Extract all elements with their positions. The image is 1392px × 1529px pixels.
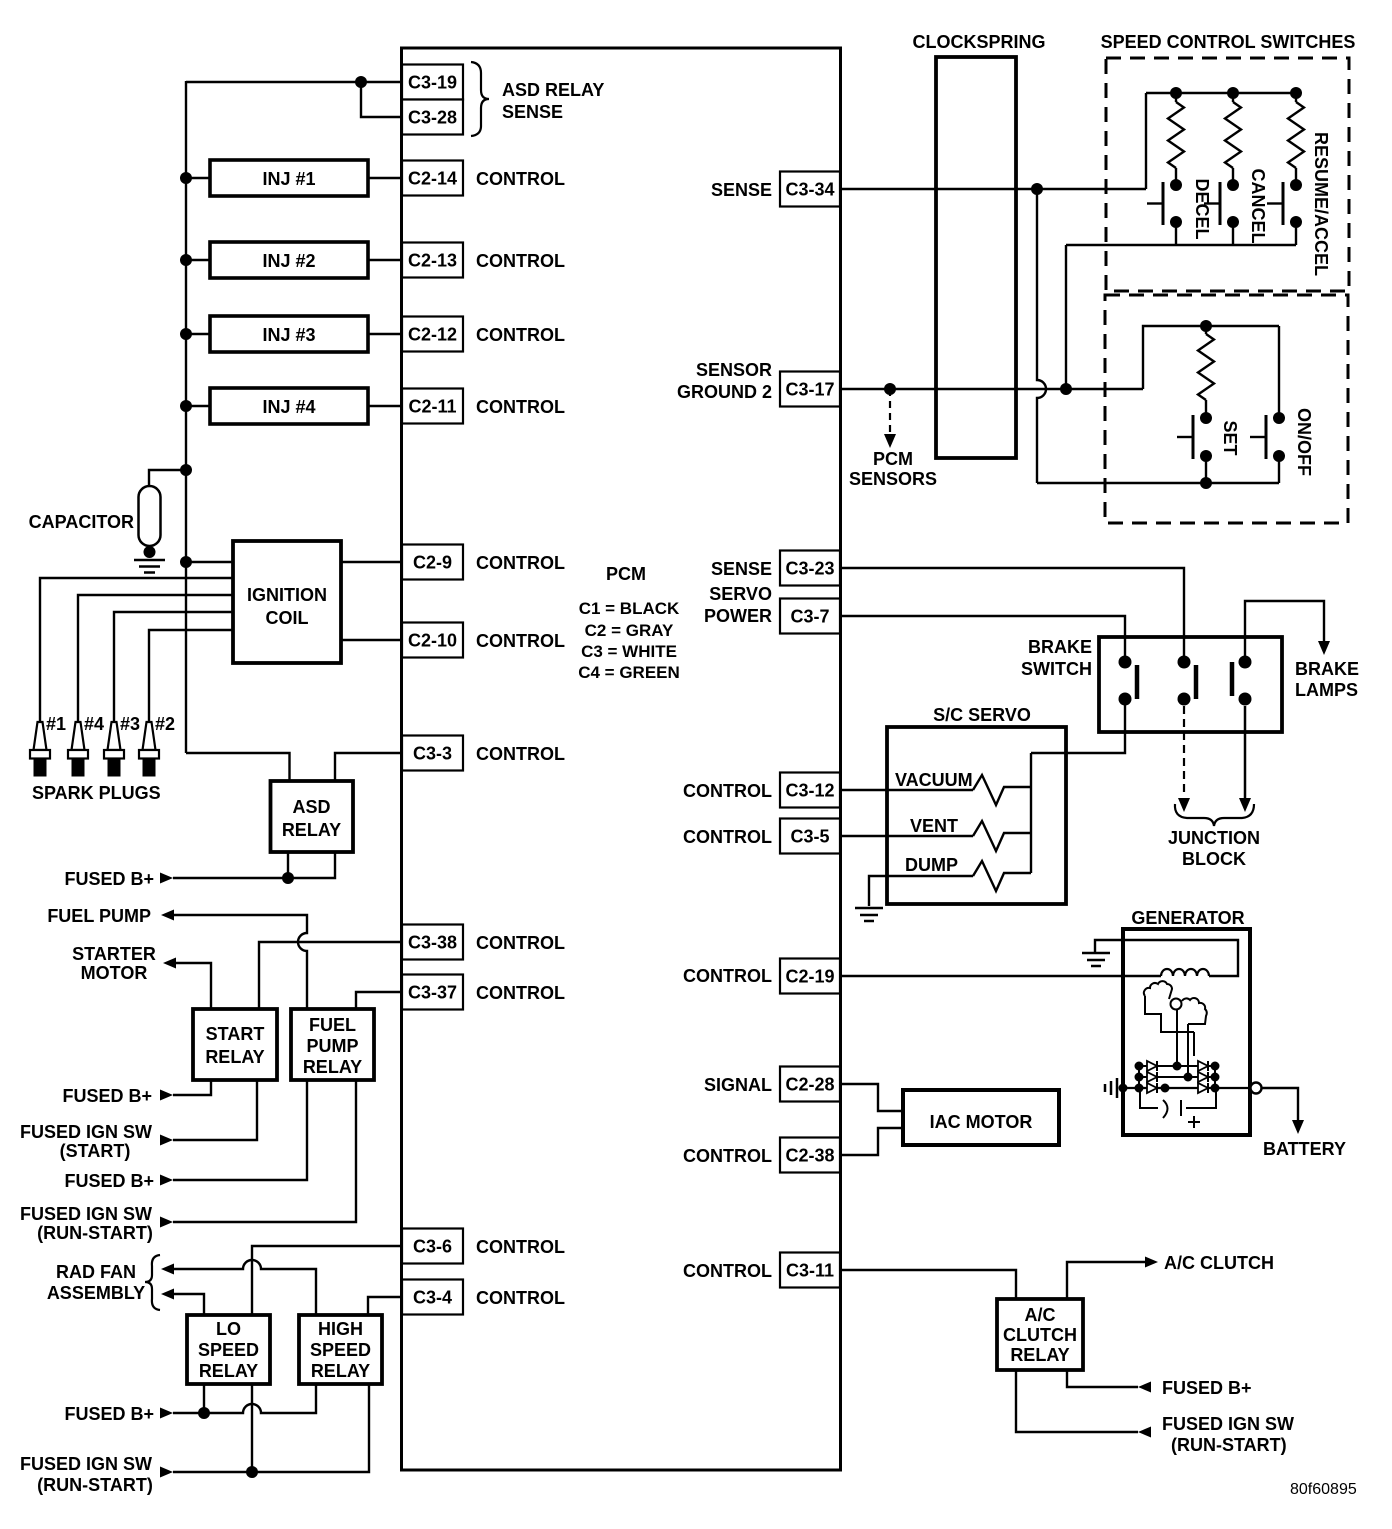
wire rad fan 2 to lo speed relay	[174, 1294, 204, 1315]
wire lower rail drop to C3-17	[1065, 245, 1067, 389]
PCM module box U1	[402, 48, 841, 1470]
svg-text:C2 = GRAY: C2 = GRAY	[585, 621, 674, 640]
svg-text:LO: LO	[216, 1319, 241, 1339]
wire coil to spark plug #4	[78, 595, 233, 722]
arrow contact3 junction block	[1239, 798, 1251, 812]
relay FUEL PUMP RELAY K3	[291, 1009, 374, 1080]
arrow battery	[1292, 1120, 1304, 1134]
svg-text:INJ #3: INJ #3	[262, 325, 315, 345]
wire riser to set/onoff top rail	[1143, 326, 1279, 389]
relay A/C CLUTCH RELAY K6	[997, 1299, 1083, 1370]
node set resistor top	[1200, 320, 1212, 332]
svg-text:CONTROL: CONTROL	[476, 744, 565, 764]
brace junction block	[1175, 804, 1254, 826]
connector pin C3-37	[402, 975, 463, 1010]
node top rail RESUME/ACCEL	[1290, 87, 1302, 99]
svg-text:VACUUM: VACUUM	[895, 770, 973, 790]
connector pin C2-10	[402, 623, 463, 658]
rectifier bridge rows	[1139, 1065, 1215, 1067]
diode D1	[1147, 1061, 1157, 1071]
arrow fused ign sw input 3	[1138, 1427, 1151, 1438]
svg-text:SPARK PLUGS: SPARK PLUGS	[32, 783, 161, 803]
node PCM sensors junction	[884, 383, 896, 395]
svg-text:C3-37: C3-37	[408, 983, 457, 1003]
svg-text:GENERATOR: GENERATOR	[1131, 908, 1244, 928]
svg-text:CONTROL: CONTROL	[683, 1146, 772, 1166]
wire contact1 bottom to servo	[1031, 699, 1125, 753]
node fused ign sw bottom junction	[246, 1466, 258, 1478]
wire INJ#1 to connector	[368, 177, 402, 179]
svg-text:CONTROL: CONTROL	[476, 553, 565, 573]
node junction on C3-19 wire	[355, 76, 367, 88]
injector INJ#3	[210, 316, 368, 352]
wire INJ#2 to connector	[368, 259, 402, 261]
wire coil to spark plug #3	[114, 612, 233, 722]
wire sense riser to top rail	[1145, 93, 1147, 189]
wire bus to INJ#2	[186, 259, 210, 261]
connector pin C2-38	[780, 1138, 840, 1173]
arrow brake lamps	[1318, 641, 1330, 655]
connector pin C3-11	[780, 1253, 840, 1288]
svg-text:BATTERY: BATTERY	[1263, 1139, 1346, 1159]
svg-text:ASD: ASD	[292, 797, 330, 817]
svg-text:MOTOR: MOTOR	[81, 963, 148, 983]
svg-text:CONTROL: CONTROL	[476, 397, 565, 417]
svg-text:IGNITION: IGNITION	[247, 585, 327, 605]
svg-text:GROUND 2: GROUND 2	[677, 382, 772, 402]
ground below capacitor	[134, 559, 165, 562]
svg-text:CONTROL: CONTROL	[476, 1237, 565, 1257]
servo box	[887, 727, 1066, 904]
wire ON/OFF to bottom rail	[1278, 456, 1280, 483]
clockspring box	[936, 57, 1016, 458]
svg-text:CONTROL: CONTROL	[683, 827, 772, 847]
wire coil to C2-9	[341, 561, 402, 563]
svg-text:SERVO: SERVO	[709, 584, 772, 604]
node top rail DECEL	[1170, 87, 1182, 99]
svg-text:C2-28: C2-28	[785, 1075, 834, 1095]
svg-text:FUSED B+: FUSED B+	[64, 1171, 154, 1191]
svg-text:#4: #4	[84, 714, 104, 734]
svg-text:PUMP: PUMP	[306, 1036, 358, 1056]
svg-text:(START): (START)	[60, 1141, 131, 1161]
svg-text:CAPACITOR: CAPACITOR	[29, 512, 134, 532]
spark plug #3	[108, 722, 121, 750]
svg-text:S/C SERVO: S/C SERVO	[933, 705, 1031, 725]
svg-text:CLOCKSPRING: CLOCKSPRING	[912, 32, 1045, 52]
arrow rad fan output 1	[161, 1264, 174, 1275]
svg-text:FUSED IGN SW: FUSED IGN SW	[20, 1122, 152, 1142]
svg-text:SPEED: SPEED	[310, 1340, 371, 1360]
svg-text:SENSE: SENSE	[711, 559, 772, 579]
svg-text:RELAY: RELAY	[205, 1047, 264, 1067]
wire bus to INJ#1	[186, 177, 210, 179]
arrow fused ign sw run-start input 2	[160, 1467, 173, 1478]
svg-text:C3-38: C3-38	[408, 933, 457, 953]
svg-text:RELAY: RELAY	[1010, 1345, 1069, 1365]
node bus junction capacitor	[180, 464, 192, 476]
svg-text:80f60895: 80f60895	[1290, 1481, 1357, 1498]
svg-text:RESUME/ACCEL: RESUME/ACCEL	[1311, 132, 1331, 276]
svg-text:C3-12: C3-12	[785, 781, 834, 801]
svg-text:A/C: A/C	[1025, 1305, 1056, 1325]
spark plug #2	[143, 722, 156, 750]
svg-text:STARTER: STARTER	[72, 944, 156, 964]
resistor DUMP solenoid	[973, 861, 1031, 891]
connector pin C3-23	[780, 551, 840, 586]
svg-text:C3-11: C3-11	[786, 1261, 834, 1281]
wire junction to C3-28	[361, 82, 402, 117]
svg-text:C3-3: C3-3	[413, 744, 452, 764]
svg-text:COIL: COIL	[266, 608, 309, 628]
relay HIGH SPEED RELAY K5	[299, 1315, 382, 1384]
ground generator case	[1116, 1078, 1119, 1098]
wire INJ#4 to connector	[368, 405, 402, 407]
svg-text:A/C CLUTCH: A/C CLUTCH	[1164, 1253, 1274, 1273]
wire coil to C2-10	[341, 639, 402, 641]
wire start relay to fused B+	[173, 1080, 211, 1095]
wire start relay to fused ign sw start	[173, 1080, 257, 1140]
switch SET	[1200, 412, 1212, 424]
node bus junction INJ#4	[180, 400, 192, 412]
wire C3-6 to lo speed relay	[252, 1246, 402, 1315]
relay ASD RELAY K1	[271, 781, 354, 852]
rectifier junction dots	[1135, 1062, 1144, 1071]
wire stator to rectifier	[1176, 1010, 1178, 1066]
wire bus to INJ#3	[186, 333, 210, 335]
stator windings	[1144, 981, 1172, 999]
svg-text:INJ #1: INJ #1	[262, 169, 315, 189]
spark plug #1	[34, 722, 47, 750]
svg-text:PCM: PCM	[606, 564, 646, 584]
arrow rad fan output 2	[161, 1289, 174, 1300]
arrow AC clutch output	[1145, 1257, 1158, 1268]
svg-text:ASD RELAY: ASD RELAY	[502, 80, 604, 100]
wire set/onoff bottom rail	[1037, 482, 1279, 484]
svg-text:CONTROL: CONTROL	[683, 1261, 772, 1281]
wire bus to capacitor C1	[149, 470, 186, 487]
brake switch contact 3	[1239, 656, 1252, 669]
svg-text:BRAKE: BRAKE	[1295, 659, 1359, 679]
svg-text:C3-6: C3-6	[413, 1237, 452, 1257]
svg-text:FUSED IGN SW: FUSED IGN SW	[20, 1204, 152, 1224]
ground generator field	[1082, 952, 1110, 955]
svg-text:HIGH: HIGH	[318, 1319, 363, 1339]
svg-text:POWER: POWER	[704, 606, 772, 626]
wire AC relay to fused ign sw 3	[1016, 1370, 1138, 1432]
connector pin C3-4	[402, 1280, 463, 1315]
dashed box speed control upper	[1106, 58, 1349, 291]
svg-text:CANCEL: CANCEL	[1248, 169, 1268, 244]
arrow fused ign sw start input	[160, 1135, 173, 1146]
connector pin C2-28	[780, 1067, 840, 1102]
svg-text:C2-11: C2-11	[408, 397, 456, 417]
svg-text:FUSED B+: FUSED B+	[1162, 1378, 1252, 1398]
brake switch contact 1	[1119, 656, 1132, 669]
wire starter motor to start relay	[176, 963, 211, 1009]
svg-text:C2-13: C2-13	[408, 251, 457, 271]
node C3-34 junction	[1031, 183, 1043, 195]
svg-text:ASSEMBLY: ASSEMBLY	[47, 1283, 145, 1303]
connector pin C3-34	[780, 172, 840, 207]
svg-text:FUSED B+: FUSED B+	[64, 1404, 154, 1424]
svg-text:(RUN-START): (RUN-START)	[37, 1223, 153, 1243]
arrow fused B+ input 2	[160, 1090, 173, 1101]
wire fuel pump with hop	[174, 915, 307, 1009]
svg-text:RELAY: RELAY	[311, 1361, 370, 1381]
svg-text:LAMPS: LAMPS	[1295, 680, 1358, 700]
svg-text:C3 = WHITE: C3 = WHITE	[581, 642, 677, 661]
svg-text:INJ #4: INJ #4	[262, 397, 315, 417]
wire dashed to PCM sensors	[889, 389, 891, 434]
arrow fused B+ input 5	[1138, 1382, 1151, 1393]
wire C2-38 control to IAC	[840, 1128, 903, 1155]
ignition coil T1	[233, 541, 341, 663]
svg-text:FUSED B+: FUSED B+	[62, 1086, 152, 1106]
svg-text:CONTROL: CONTROL	[476, 169, 565, 189]
arrow PCM sensors	[884, 434, 896, 448]
resistor VACUUM solenoid	[973, 775, 1031, 805]
svg-text:#2: #2	[155, 714, 175, 734]
svg-text:SENSOR: SENSOR	[696, 360, 772, 380]
dashed box speed control lower	[1105, 295, 1348, 523]
arrow contact2 junction block	[1178, 798, 1190, 812]
wire bus to ignition coil	[186, 561, 233, 563]
svg-text:(RUN-START): (RUN-START)	[1171, 1435, 1287, 1455]
wire RESUME/ACCEL to lower rail	[1295, 222, 1297, 245]
arrow fuel pump output	[161, 910, 174, 921]
connector pin C3-28	[402, 100, 463, 135]
wire contact3 top to brake lamps	[1245, 601, 1324, 662]
connector pin C3-38	[402, 925, 463, 960]
node fused B+ 4 junction	[198, 1407, 210, 1419]
wire fused B+ feed	[173, 877, 288, 879]
switch RESUME/ACCEL	[1290, 179, 1302, 191]
svg-text:C3-34: C3-34	[785, 180, 834, 200]
svg-text:FUEL PUMP: FUEL PUMP	[47, 906, 151, 926]
svg-text:CONTROL: CONTROL	[683, 966, 772, 986]
wire contact3 bottom to junction block	[1244, 706, 1247, 799]
svg-text:C3-28: C3-28	[408, 108, 457, 128]
wire C3-11 control to AC relay	[840, 1270, 1016, 1299]
injector INJ#1	[210, 160, 368, 196]
wire C2-28 signal to IAC	[840, 1084, 903, 1111]
svg-text:CLUTCH: CLUTCH	[1003, 1325, 1077, 1345]
wire C2-19 control to field winding	[840, 975, 1161, 977]
svg-text:SENSE: SENSE	[711, 180, 772, 200]
connector pin C3-19	[402, 65, 463, 100]
inductor field winding L1	[1161, 969, 1209, 976]
wire AC relay to fused B+ 5	[1067, 1370, 1138, 1387]
wire SET to bottom rail	[1205, 456, 1207, 483]
svg-text:RELAY: RELAY	[199, 1361, 258, 1381]
wire fuel pump relay to fused B+ 3	[173, 1080, 307, 1180]
connector pin C3-12	[780, 773, 840, 808]
svg-text:#1: #1	[46, 714, 66, 734]
wire lo relay left pin to fused B+ 4	[203, 1384, 205, 1413]
regulator marks	[1140, 1088, 1158, 1108]
generator G1 box	[1123, 929, 1250, 1135]
wire C3-37 to fuel pump relay	[356, 992, 402, 1009]
arrow fused B+ input 4	[160, 1408, 173, 1419]
arrow starter motor output	[163, 958, 176, 969]
wire INJ#3 to connector	[368, 333, 402, 335]
switch CANCEL	[1227, 179, 1239, 191]
wire ASD left pin to fused B+	[287, 852, 289, 878]
wire C3-34 drop to set/onoff rail with hop	[1037, 189, 1046, 483]
wire left injector bus	[185, 81, 187, 753]
relay LO SPEED RELAY K4	[187, 1315, 270, 1384]
connector pin C2-14	[402, 161, 463, 196]
svg-text:BRAKE: BRAKE	[1028, 637, 1092, 657]
wire C3-5 control to vent	[840, 835, 973, 837]
diode D5	[1147, 1083, 1157, 1093]
wire rad fan 1 to high speed relay with hop	[174, 1260, 316, 1315]
svg-text:SIGNAL: SIGNAL	[704, 1075, 772, 1095]
svg-text:C2-38: C2-38	[785, 1146, 834, 1166]
connector pin C3-6	[402, 1229, 463, 1264]
diode D4	[1198, 1072, 1208, 1082]
diode D3	[1147, 1072, 1157, 1082]
svg-text:C2-10: C2-10	[408, 631, 457, 651]
svg-text:PCM: PCM	[873, 449, 913, 469]
svg-text:INJ #2: INJ #2	[262, 251, 315, 271]
brace rad fan	[145, 1255, 160, 1310]
svg-text:CONTROL: CONTROL	[476, 983, 565, 1003]
wire CANCEL to lower rail	[1232, 222, 1234, 245]
injector INJ#4	[210, 388, 368, 424]
node bus junction INJ#2	[180, 254, 192, 266]
node top rail CANCEL	[1227, 87, 1239, 99]
svg-text:SPEED CONTROL SWITCHES: SPEED CONTROL SWITCHES	[1101, 32, 1356, 52]
svg-text:IAC MOTOR: IAC MOTOR	[930, 1112, 1033, 1132]
svg-text:C3-17: C3-17	[785, 380, 834, 400]
IAC motor M1	[903, 1090, 1059, 1145]
wire DECEL to lower rail	[1175, 222, 1177, 245]
svg-text:VENT: VENT	[910, 816, 958, 836]
svg-text:FUSED IGN SW: FUSED IGN SW	[20, 1454, 152, 1474]
wire fuel pump relay to fused ign sw run-start	[173, 1080, 356, 1222]
wire fused B+ 4 to high relay with hop	[173, 1384, 316, 1413]
connector pin C3-7	[780, 599, 840, 634]
wire C3-23 sense to brake switch	[840, 568, 1184, 658]
arrow fused B+ input 3	[160, 1175, 173, 1186]
wire AC relay to AC clutch	[1067, 1262, 1145, 1299]
wire generator output to battery	[1262, 1088, 1298, 1120]
svg-text:CONTROL: CONTROL	[476, 325, 565, 345]
svg-text:C1 = BLACK: C1 = BLACK	[579, 599, 680, 618]
wire lo relay right pin down	[251, 1384, 253, 1472]
svg-text:C3-7: C3-7	[790, 607, 829, 627]
svg-text:C4 = GREEN: C4 = GREEN	[578, 663, 680, 682]
svg-text:SPEED: SPEED	[198, 1340, 259, 1360]
resistor DECEL	[1168, 102, 1184, 168]
svg-text:C3-19: C3-19	[408, 73, 457, 93]
connector pin C2-19	[780, 959, 840, 994]
resistor CANCEL	[1225, 102, 1241, 168]
wire C3-4 to high speed relay	[368, 1297, 402, 1315]
ground servo dump	[855, 907, 883, 910]
node ASD fused B+ junction	[282, 872, 294, 884]
wire servo collector	[1030, 753, 1032, 873]
wire upper switches lower rail	[1066, 244, 1296, 246]
wire bus to INJ#4	[186, 405, 210, 407]
wire bus to C3-19	[186, 81, 402, 83]
generator output terminal	[1251, 1083, 1262, 1094]
resistor SET	[1198, 334, 1214, 400]
svg-text:C2-14: C2-14	[408, 169, 457, 189]
svg-text:FUSED B+: FUSED B+	[64, 869, 154, 889]
wire C3-17 sensor ground	[840, 388, 1143, 390]
svg-text:FUEL: FUEL	[309, 1015, 356, 1035]
wire coil to spark plug #1	[40, 578, 233, 722]
wire contact2 bottom to junction block	[1183, 706, 1185, 797]
node C3-17 lower rail junction	[1060, 383, 1072, 395]
svg-text:#3: #3	[120, 714, 140, 734]
wire C3-12 control to vacuum	[840, 789, 973, 791]
svg-text:SENSE: SENSE	[502, 102, 563, 122]
relay START RELAY K2	[193, 1009, 277, 1080]
svg-text:C3-5: C3-5	[790, 827, 829, 847]
brake switch S1 box	[1099, 637, 1282, 732]
spark plug #4	[72, 722, 85, 750]
injector INJ#2	[210, 242, 368, 278]
node bus junction INJ#1	[180, 172, 192, 184]
svg-text:JUNCTION: JUNCTION	[1168, 828, 1260, 848]
svg-text:SET: SET	[1220, 420, 1240, 455]
svg-text:RAD FAN: RAD FAN	[56, 1262, 136, 1282]
wire dump to ground	[869, 876, 973, 906]
wire ON/OFF riser to top rail	[1278, 326, 1280, 418]
brace ASD relay sense	[471, 62, 489, 136]
wire bus to ASD relay	[186, 753, 290, 781]
wire C3-38 to start relay	[259, 942, 402, 1009]
svg-text:CONTROL: CONTROL	[683, 781, 772, 801]
svg-text:CONTROL: CONTROL	[476, 631, 565, 651]
svg-text:START: START	[206, 1024, 265, 1044]
node SET bottom rail junction	[1200, 477, 1212, 489]
diode D6	[1198, 1083, 1208, 1093]
arrow fused ign sw run-start input	[160, 1217, 173, 1228]
wire C3-34 sense to switch rail	[840, 188, 1146, 190]
node bus junction INJ#3	[180, 328, 192, 340]
svg-text:FUSED IGN SW: FUSED IGN SW	[1162, 1414, 1294, 1434]
svg-text:CONTROL: CONTROL	[476, 933, 565, 953]
svg-text:SWITCH: SWITCH	[1021, 659, 1092, 679]
capacitor C1 body	[139, 486, 161, 546]
wire ground to field loop	[1095, 940, 1238, 976]
node bus junction ignition coil	[180, 556, 192, 568]
wire coil to spark plug #2	[149, 630, 233, 722]
svg-text:(RUN-START): (RUN-START)	[37, 1475, 153, 1495]
connector pin C3-5	[780, 819, 840, 854]
resistor RESUME/ACCEL	[1288, 102, 1304, 168]
node capacitor bottom	[144, 546, 156, 558]
connector pin C2-11	[402, 389, 463, 424]
wire C3-7 servo power to brake switch	[840, 616, 1125, 658]
svg-text:SENSORS: SENSORS	[849, 469, 937, 489]
svg-text:C2-19: C2-19	[785, 967, 834, 987]
connector pin C3-17	[780, 372, 840, 407]
wire ASD relay to C3-3	[335, 753, 402, 781]
wire top rail	[1146, 92, 1296, 94]
svg-text:RELAY: RELAY	[282, 820, 341, 840]
svg-text:DECEL: DECEL	[1192, 178, 1212, 239]
svg-text:ON/OFF: ON/OFF	[1294, 408, 1314, 476]
svg-text:CONTROL: CONTROL	[476, 251, 565, 271]
switch ON/OFF	[1273, 412, 1285, 424]
connector pin C3-3	[402, 736, 463, 771]
